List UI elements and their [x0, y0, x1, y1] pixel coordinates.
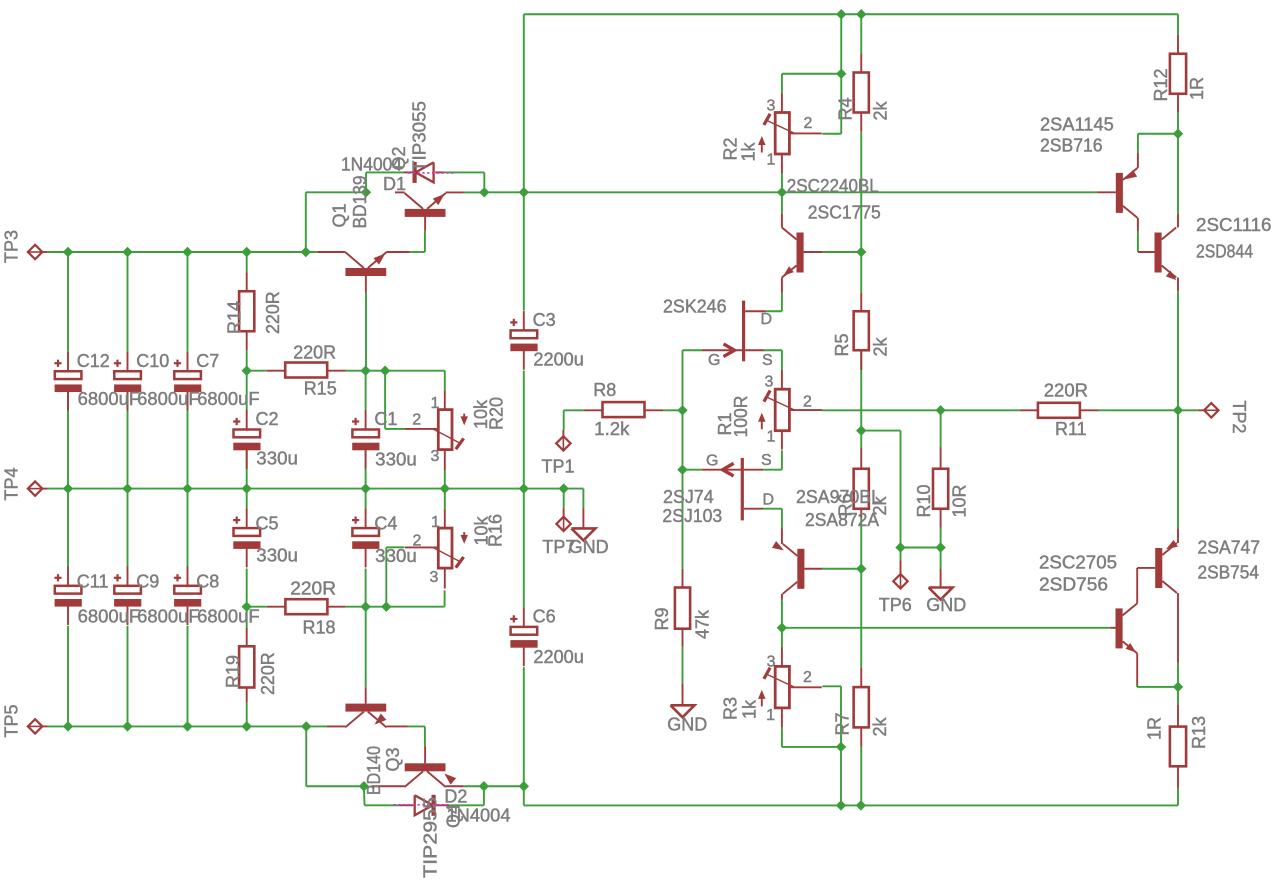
svg-text:1: 1 [431, 514, 440, 531]
svg-text:6800uF: 6800uF [78, 606, 141, 626]
svg-text:1R: 1R [1145, 717, 1165, 740]
svg-text:1R: 1R [1187, 77, 1207, 100]
svg-text:330u: 330u [256, 449, 298, 469]
svg-text:R2: R2 [721, 137, 741, 160]
svg-text:1: 1 [766, 707, 775, 724]
svg-text:2SC2705: 2SC2705 [1039, 553, 1117, 573]
svg-text:220R: 220R [293, 343, 336, 363]
svg-text:TP5: TP5 [2, 704, 22, 737]
svg-text:220R: 220R [290, 579, 336, 599]
svg-text:C9: C9 [136, 571, 159, 591]
svg-text:C10: C10 [136, 351, 169, 371]
svg-text:2: 2 [413, 532, 422, 549]
svg-text:C12: C12 [77, 351, 110, 371]
svg-text:2200u: 2200u [533, 647, 584, 667]
svg-text:R7: R7 [833, 712, 853, 735]
svg-text:2SC1116: 2SC1116 [1196, 215, 1272, 235]
svg-text:1k: 1k [740, 699, 760, 719]
svg-text:GND: GND [667, 714, 707, 734]
svg-text:TP3: TP3 [2, 230, 22, 263]
svg-text:1: 1 [767, 429, 776, 446]
svg-text:3: 3 [431, 448, 440, 465]
svg-text:R19: R19 [223, 655, 243, 688]
svg-text:R20: R20 [487, 397, 507, 430]
svg-text:C2: C2 [256, 409, 279, 429]
svg-text:6800uF: 6800uF [197, 389, 260, 409]
svg-text:1.2k: 1.2k [594, 419, 630, 439]
svg-text:G: G [706, 452, 718, 469]
svg-text:BD140: BD140 [364, 746, 384, 795]
svg-text:2: 2 [804, 115, 813, 132]
svg-text:C7: C7 [196, 351, 219, 371]
svg-text:3: 3 [430, 569, 439, 586]
svg-text:D2: D2 [444, 787, 467, 807]
svg-text:10R: 10R [950, 484, 970, 517]
svg-text:C8: C8 [196, 571, 219, 591]
svg-text:C6: C6 [533, 607, 556, 627]
svg-text:C4: C4 [374, 514, 397, 534]
svg-text:6800uF: 6800uF [78, 389, 141, 409]
svg-text:TP1: TP1 [542, 457, 575, 477]
svg-text:TP2: TP2 [1229, 401, 1249, 434]
svg-text:R8: R8 [593, 380, 616, 400]
svg-text:2SC2240BL: 2SC2240BL [787, 176, 879, 196]
svg-text:2: 2 [412, 411, 421, 428]
svg-text:3: 3 [767, 98, 776, 115]
svg-text:2k: 2k [870, 716, 890, 736]
svg-text:2SA970BL: 2SA970BL [796, 487, 881, 507]
svg-text:3: 3 [767, 654, 776, 671]
svg-text:G: G [708, 352, 720, 369]
svg-text:2k: 2k [871, 100, 891, 120]
svg-text:TP4: TP4 [2, 467, 22, 500]
svg-text:2SC1775: 2SC1775 [808, 203, 881, 223]
svg-text:R11: R11 [1055, 419, 1087, 439]
svg-text:Q1: Q1 [330, 203, 350, 227]
svg-text:D: D [763, 491, 775, 508]
svg-text:R16: R16 [486, 514, 506, 547]
svg-text:R10: R10 [914, 484, 934, 517]
svg-text:R5: R5 [832, 333, 852, 356]
svg-text:2SK246: 2SK246 [663, 297, 727, 317]
svg-text:D1: D1 [383, 174, 406, 194]
svg-text:220R: 220R [263, 291, 283, 334]
svg-text:3: 3 [765, 373, 774, 390]
svg-text:6800uF: 6800uF [197, 606, 260, 626]
svg-text:C11: C11 [77, 571, 109, 591]
svg-text:6800uF: 6800uF [137, 389, 200, 409]
svg-text:2SD756: 2SD756 [1039, 575, 1108, 595]
svg-text:330u: 330u [375, 546, 417, 566]
svg-text:330u: 330u [256, 546, 298, 566]
svg-text:R12: R12 [1151, 68, 1171, 101]
svg-text:GND: GND [569, 537, 609, 557]
svg-text:TP6: TP6 [879, 595, 912, 615]
svg-text:1N4004: 1N4004 [447, 806, 511, 826]
svg-text:BD139: BD139 [350, 176, 370, 229]
svg-text:2SD844: 2SD844 [1196, 242, 1253, 262]
svg-text:1N4004: 1N4004 [341, 155, 402, 175]
svg-text:220R: 220R [258, 652, 278, 695]
svg-text:2200u: 2200u [533, 350, 584, 370]
svg-text:Q3: Q3 [383, 747, 403, 771]
svg-text:R15: R15 [304, 379, 337, 399]
svg-text:2SJ74: 2SJ74 [663, 487, 714, 507]
svg-text:GND: GND [926, 595, 966, 615]
svg-text:100R: 100R [731, 395, 751, 437]
svg-text:2SA872A: 2SA872A [805, 510, 879, 530]
svg-text:R18: R18 [303, 618, 336, 638]
svg-text:2SA1145: 2SA1145 [1040, 115, 1114, 135]
svg-text:R14: R14 [225, 301, 245, 334]
svg-text:TIP2955: TIP2955 [421, 797, 441, 878]
svg-text:330u: 330u [375, 450, 417, 470]
svg-text:2: 2 [803, 393, 812, 410]
svg-text:2SA747: 2SA747 [1198, 538, 1261, 558]
svg-text:R13: R13 [1189, 716, 1209, 749]
svg-text:2SJ103: 2SJ103 [662, 506, 722, 526]
svg-text:2: 2 [803, 669, 812, 686]
svg-text:R9: R9 [652, 607, 672, 630]
svg-text:S: S [762, 352, 773, 369]
svg-text:6800uF: 6800uF [137, 606, 200, 626]
svg-text:2k: 2k [871, 336, 891, 356]
svg-text:220R: 220R [1044, 381, 1088, 401]
svg-text:C5: C5 [256, 514, 279, 534]
svg-text:R4: R4 [836, 97, 856, 120]
svg-text:D: D [761, 311, 773, 328]
svg-text:47k: 47k [693, 609, 713, 639]
svg-text:2SB716: 2SB716 [1040, 136, 1103, 156]
svg-text:2SB754: 2SB754 [1198, 563, 1260, 583]
svg-text:TIP3055: TIP3055 [410, 101, 430, 172]
svg-text:C1: C1 [374, 409, 397, 429]
svg-text:1k: 1k [739, 141, 759, 161]
svg-text:1: 1 [431, 395, 440, 412]
svg-text:C3: C3 [533, 310, 556, 330]
svg-text:R3: R3 [721, 697, 741, 720]
svg-text:1: 1 [767, 151, 776, 168]
svg-text:S: S [761, 452, 772, 469]
